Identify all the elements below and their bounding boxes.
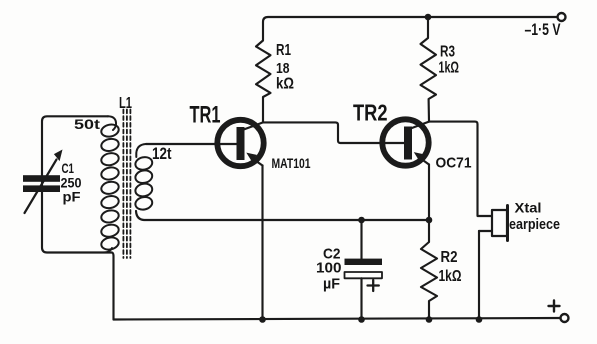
svg-text:50t: 50t: [74, 117, 101, 132]
coil L1 core: [123, 110, 130, 259]
coil L1 primary 50t: [100, 116, 120, 252]
svg-text:MAT101: MAT101: [272, 155, 311, 171]
node R3 top junction: [425, 14, 432, 21]
resistor R2: [421, 220, 437, 320]
node C2 top tap: [358, 217, 365, 224]
svg-text:100: 100: [316, 260, 342, 277]
wire TR1 emitter to ground rail: [261, 166, 263, 320]
wire bottom ground rail: [114, 318, 561, 320]
wire TR2 collector to earpiece: [429, 122, 492, 216]
svg-text:TR2: TR2: [353, 100, 388, 126]
svg-text:L1: L1: [119, 95, 132, 112]
svg-text:kΩ: kΩ: [276, 76, 294, 93]
node R2 bottom on rail: [426, 316, 433, 323]
coil L1 secondary 12t: [134, 144, 153, 211]
node earpiece bottom on rail: [476, 316, 483, 323]
label + of battery terminal: [549, 301, 560, 312]
svg-text:pF: pF: [63, 189, 81, 205]
transistor TR1: [146, 120, 264, 166]
terminal + battery: [561, 314, 569, 322]
svg-text:OC71: OC71: [436, 155, 472, 172]
node TR2 emitter / R2 / C2 junction: [426, 217, 433, 224]
capacitor C2: [345, 220, 383, 320]
node TR1 emitter on rail: [259, 316, 266, 323]
wire secondary bottom to emitter node: [136, 211, 429, 220]
svg-text:R2: R2: [441, 249, 458, 266]
svg-text:Xtal: Xtal: [515, 200, 542, 216]
svg-text:R1: R1: [276, 42, 291, 59]
transistor TR2: [382, 119, 429, 165]
capacitor C1 variable: [23, 150, 63, 214]
wire top supply rail: [263, 17, 556, 22]
svg-text:µF: µF: [323, 276, 340, 293]
svg-text:–1·5 V: –1·5 V: [525, 20, 561, 39]
svg-text:R3: R3: [440, 44, 455, 61]
svg-text:earpiece: earpiece: [509, 217, 560, 233]
resistor R1: [256, 22, 271, 122]
svg-text:18: 18: [276, 60, 290, 77]
svg-text:TR1: TR1: [190, 102, 221, 129]
resistor R3: [421, 17, 437, 122]
node C2 bottom on rail: [358, 316, 365, 323]
terminal -1.5V battery: [558, 13, 566, 21]
svg-text:1kΩ: 1kΩ: [439, 60, 460, 77]
Xtal earpiece: [479, 206, 508, 320]
wire TR2 emitter to R2 node: [428, 165, 430, 221]
svg-text:1kΩ: 1kΩ: [439, 268, 462, 285]
tank circuit outline with tuning capacitor C1: [42, 116, 114, 319]
wire TR1 collector to TR2 base: [263, 122, 405, 143]
svg-text:12t: 12t: [152, 145, 172, 163]
